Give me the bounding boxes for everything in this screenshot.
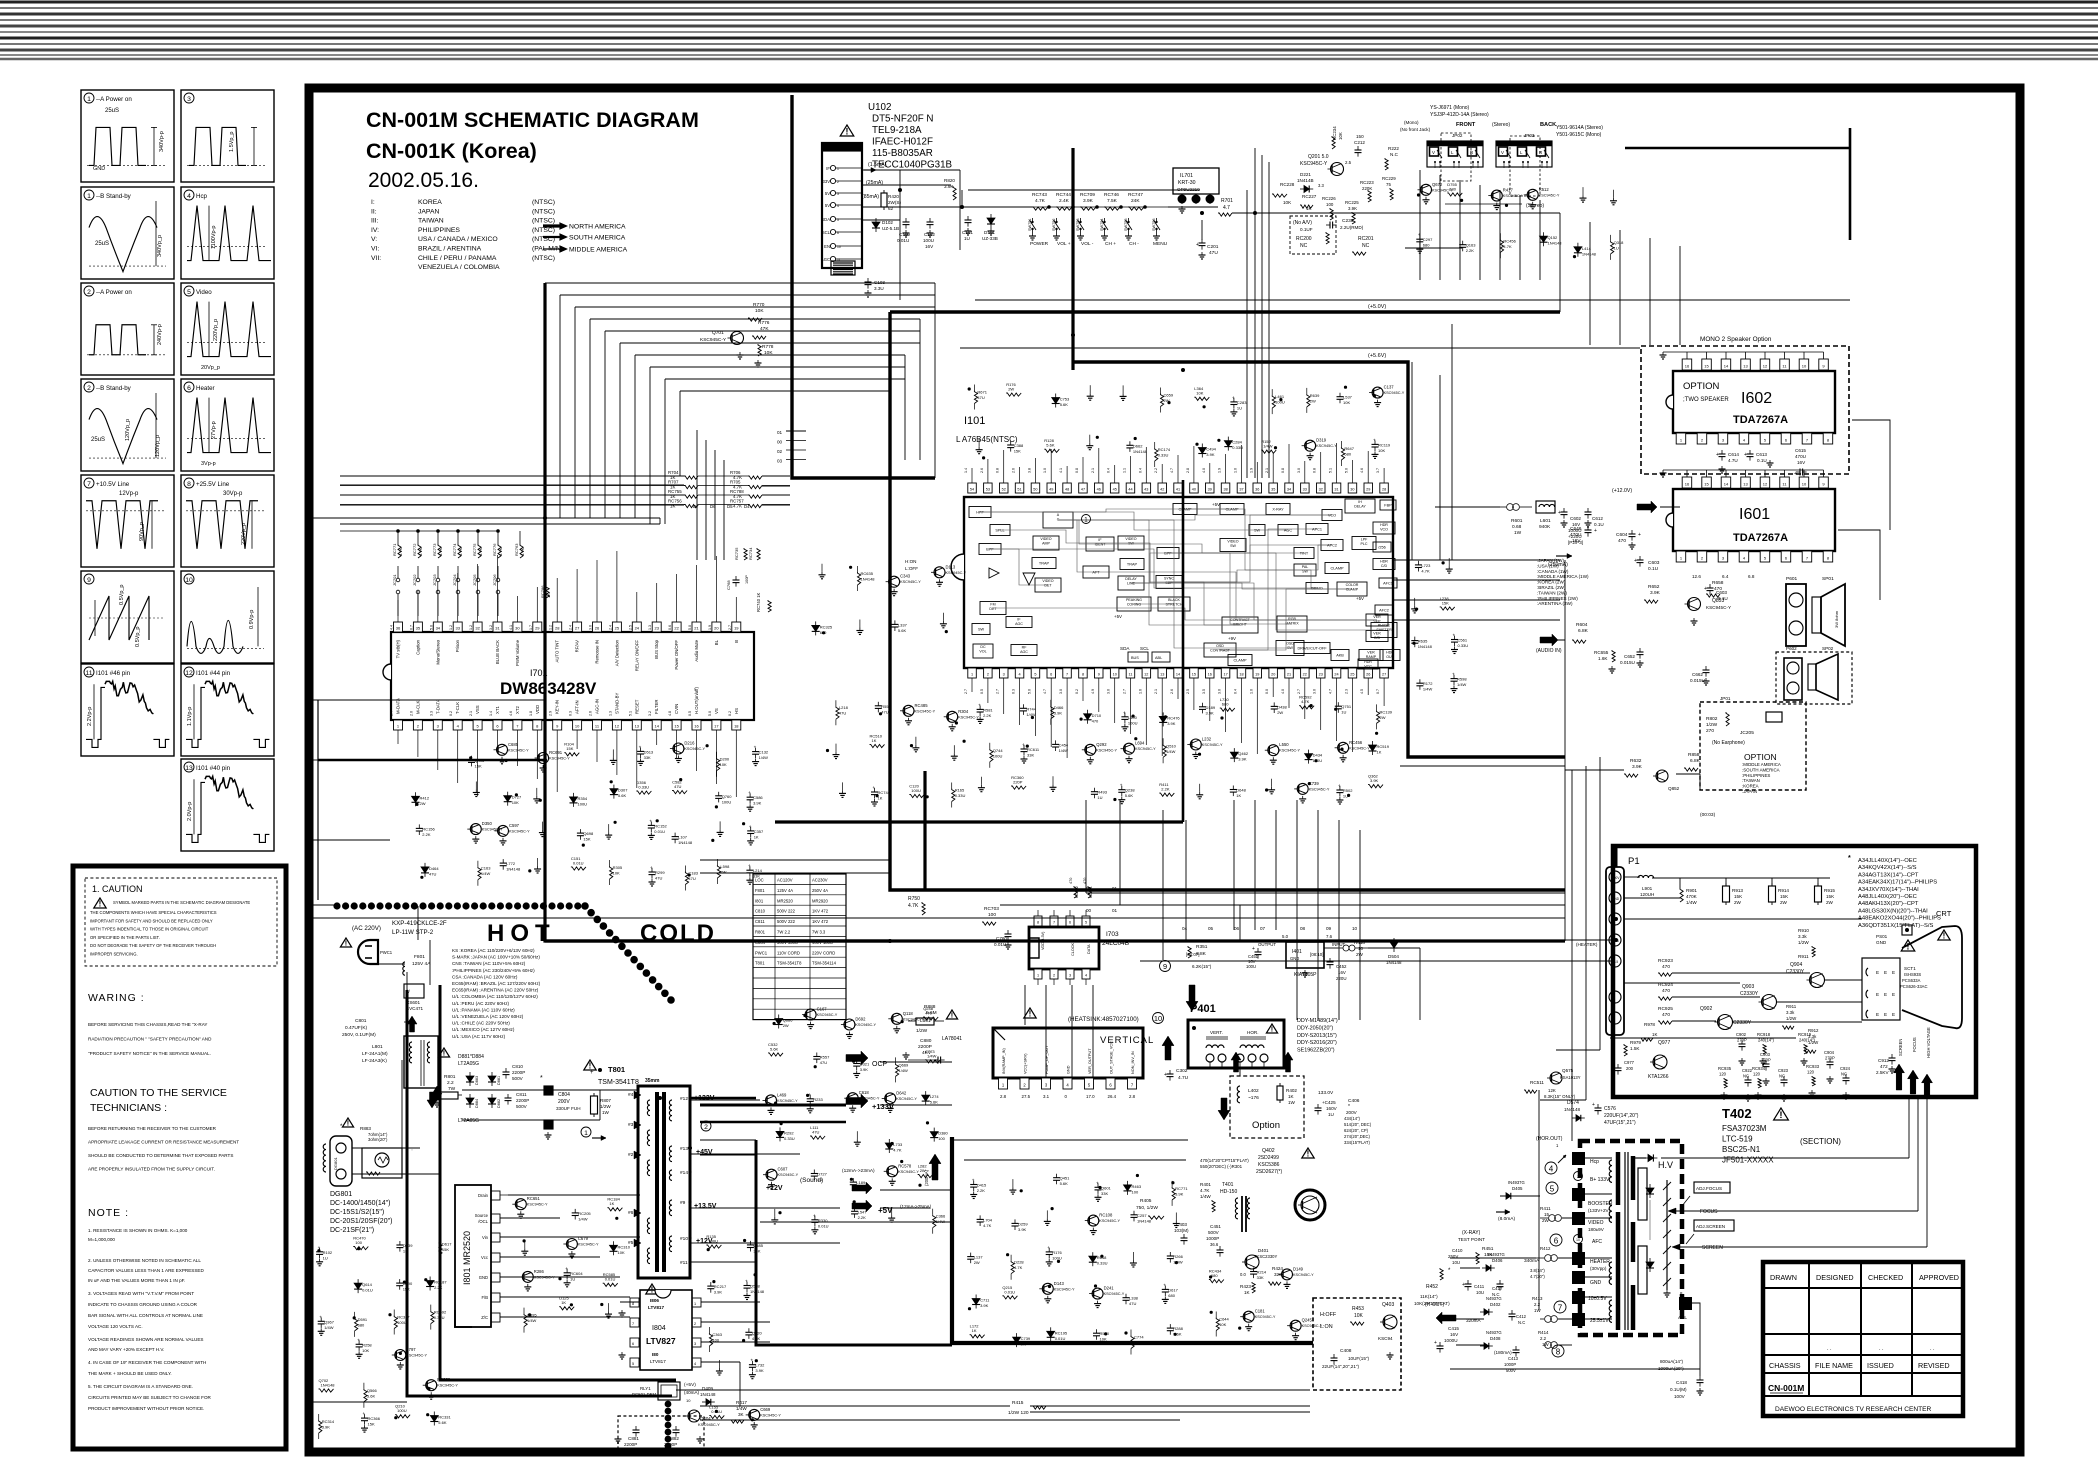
svg-text:0.47UF(K): 0.47UF(K) (345, 1025, 368, 1031)
svg-text:+: + (639, 744, 642, 749)
svg-text:2: 2 (1053, 974, 1055, 978)
svg-text:AC120V: AC120V (777, 878, 793, 883)
svg-text:KSC945C-Y: KSC945C-Y (509, 829, 530, 833)
svg-text:3.9K: 3.9K (1167, 721, 1176, 726)
svg-text:AFC1: AFC1 (1383, 582, 1393, 586)
svg-text:2W: 2W (1310, 398, 1316, 403)
svg-text:(AUDIO IN): (AUDIO IN) (1536, 648, 1562, 654)
svg-text:E: E (1876, 970, 1879, 975)
svg-text:BRAZIL / ARENTINA: BRAZIL / ARENTINA (418, 246, 482, 253)
capacitor R214 (1250, 1271, 1257, 1273)
svg-text:200V: 200V (1612, 876, 1620, 880)
svg-text:OPTION: OPTION (1744, 752, 1777, 762)
resistor D466 (1051, 706, 1054, 719)
svg-text:I101 #44 pin: I101 #44 pin (196, 670, 231, 677)
svg-text:SW753: SW753 (1076, 219, 1080, 231)
svg-text:2W: 2W (1021, 1342, 1027, 1347)
capacitor C297 (1416, 238, 1423, 240)
svg-text:5: 5 (1034, 673, 1036, 677)
svg-text:I601: I601 (1739, 506, 1770, 523)
svg-text:R424: R424 (1272, 1266, 1283, 1271)
svg-text:4.0: 4.0 (1281, 689, 1285, 694)
svg-text:C652: C652 (1624, 654, 1635, 659)
svg-text:2: 2 (704, 1124, 708, 1131)
svg-text:0.0: 0.0 (1265, 689, 1269, 694)
svg-text:C902: C902 (1736, 1032, 1747, 1037)
svg-text:KSA1013Y: KSA1013Y (1560, 1075, 1581, 1080)
svg-text:2.4: 2.4 (569, 625, 573, 630)
svg-text:680: 680 (1344, 452, 1351, 457)
svg-text:4.6: 4.6 (1360, 468, 1364, 473)
svg-text:KSC945C-Y: KSC945C-Y (1384, 391, 1405, 395)
svg-text:C132: C132 (759, 750, 769, 755)
transistor RC691 (538, 753, 549, 764)
svg-text:1.6: 1.6 (1138, 689, 1142, 694)
resistor C183 (685, 872, 688, 885)
svg-text:AFC2: AFC2 (1379, 609, 1389, 613)
svg-text:C923: C923 (1778, 1068, 1789, 1073)
svg-text:680: 680 (1222, 702, 1229, 707)
svg-text:5: 5 (1550, 1184, 1555, 1193)
svg-text:!: ! (443, 1049, 445, 1058)
svg-text:APC2: APC2 (1327, 544, 1337, 548)
svg-text:C774: C774 (1134, 1335, 1144, 1340)
capacitor R557 (813, 1056, 820, 1058)
svg-text:C103: C103 (874, 280, 885, 285)
waveform box 3 (181, 90, 274, 182)
svg-text:2.5: 2.5 (1186, 689, 1190, 694)
svg-text:R601: R601 (1511, 518, 1523, 524)
svg-text:D884: D884 (475, 1099, 479, 1108)
svg-text:/256: /256 (1378, 546, 1385, 550)
svg-text:L772: L772 (506, 861, 516, 866)
svg-text:PWC1: PWC1 (755, 950, 768, 955)
ground D381 (980, 777, 982, 785)
svg-text:KSC945C-Y: KSC945C-Y (900, 580, 921, 584)
svg-text:R415: R415 (1012, 1400, 1024, 1406)
svg-text:D405: D405 (1512, 1186, 1523, 1191)
svg-text:1/4W: 1/4W (527, 1318, 537, 1323)
svg-text:ABL: ABL (1155, 656, 1162, 660)
svg-text:TSM-3541T8: TSM-3541T8 (598, 1079, 639, 1086)
HV diode and label (1634, 1157, 1646, 1159)
svg-text:L:OFF: L:OFF (905, 566, 918, 571)
capacitor R744 (1020, 707, 1027, 709)
svg-text:C602: C602 (1570, 516, 1581, 521)
svg-text:#2: #2 (628, 1152, 634, 1158)
svg-text:D259: D259 (1018, 1221, 1028, 1226)
svg-text:624(20", CP): 624(20", CP) (1344, 1128, 1369, 1133)
svg-text:+: + (748, 790, 751, 795)
svg-text:3.9K: 3.9K (755, 1368, 764, 1373)
svg-text:680: 680 (358, 1322, 365, 1327)
svg-text:RC456: RC456 (1503, 238, 1516, 243)
svg-text:U/L :PANAMA (AC 110V 60Hz): U/L :PANAMA (AC 110V 60Hz) (452, 1007, 515, 1012)
svg-text:N4937G: N4937G (1486, 1296, 1502, 1301)
svg-text:06: 06 (1234, 926, 1240, 931)
svg-text:E: E (1876, 1012, 1879, 1017)
front jack JP02 (1427, 141, 1483, 167)
ground C612 (608, 824, 610, 832)
svg-text:C412: C412 (1516, 1314, 1527, 1319)
svg-text:220P: 220P (1013, 780, 1023, 785)
svg-text:D662: D662 (1133, 443, 1143, 448)
svg-text:5.0: 5.0 (429, 625, 433, 630)
resistor RC635 (858, 572, 861, 585)
svg-text:SW752: SW752 (1052, 219, 1056, 231)
resistor Q566 (364, 1389, 367, 1402)
transistor R304 (947, 711, 958, 722)
svg-text:0.4: 0.4 (1234, 689, 1238, 694)
svg-text:DG801: DG801 (330, 1191, 352, 1198)
svg-text:32: 32 (1319, 488, 1323, 492)
svg-text:Audio Mute: Audio Mute (694, 639, 699, 661)
svg-text:VIDEO: VIDEO (1227, 540, 1238, 544)
svg-text:Hcp: Hcp (1590, 1159, 1599, 1165)
svg-text:10K: 10K (755, 308, 764, 314)
svg-text:BPF: BPF (986, 548, 994, 552)
svg-text:Video: Video (196, 289, 212, 296)
svg-text:1/4W: 1/4W (578, 1216, 588, 1221)
svg-text:(1.5mA): (1.5mA) (868, 162, 887, 168)
svg-text:1000uA(20"): 1000uA(20") (1658, 1366, 1684, 1371)
I101 internal connector wires (1305, 570, 1317, 588)
svg-text:4.7K: 4.7K (418, 547, 423, 556)
svg-text:BEFORE SERVICING THIS CHASSIS,: BEFORE SERVICING THIS CHASSIS,READ THE "… (88, 1022, 207, 1027)
svg-text:C614: C614 (1728, 452, 1739, 457)
capacitor C103 (865, 281, 872, 283)
svg-text:FOCUS: FOCUS (1912, 1037, 1917, 1052)
svg-text:+: + (565, 1266, 568, 1271)
svg-text:100U: 100U (397, 1320, 407, 1325)
svg-text:B: B (1612, 996, 1614, 1000)
svg-text:E: E (1892, 970, 1895, 975)
svg-text:27Vp-p: 27Vp-p (211, 421, 217, 439)
svg-text:12: 12 (1144, 673, 1148, 677)
svg-text:34: 34 (1287, 488, 1291, 492)
svg-text:RC752: RC752 (1075, 886, 1079, 898)
svg-text:AFC: AFC (1592, 1239, 1602, 1245)
svg-text:UZ-33B: UZ-33B (982, 236, 998, 241)
svg-text:4.7: 4.7 (1329, 689, 1333, 694)
svg-text:1K: 1K (1377, 750, 1382, 755)
svg-text:KSC945C-Y: KSC945C-Y (527, 1203, 548, 1207)
svg-text:3.0: 3.0 (1218, 689, 1222, 694)
svg-text:BUS: BUS (1131, 656, 1139, 660)
tuner pin 2 33V (830, 178, 835, 183)
svg-text:33K: 33K (1027, 753, 1034, 758)
svg-text:I101: I101 (964, 415, 985, 427)
svg-text:RC228: RC228 (1280, 182, 1295, 187)
resistor C120 (909, 794, 924, 797)
svg-text:R776: R776 (758, 320, 770, 326)
title block table (1763, 1262, 1963, 1416)
svg-text:1N4148: 1N4148 (506, 867, 521, 872)
svg-text:CN-001K (Korea): CN-001K (Korea) (366, 139, 537, 163)
svg-text:2200P: 2200P (624, 1442, 637, 1447)
svg-text:A48AKH13X(20")--CPT: A48AKH13X(20")--CPT (1858, 901, 1919, 907)
svg-text:(Mono): (Mono) (1404, 120, 1419, 125)
svg-text:0.01U: 0.01U (994, 942, 1006, 947)
svg-text:RC744: RC744 (878, 790, 891, 795)
svg-text:3.9K: 3.9K (1054, 710, 1063, 715)
svg-text:15K: 15K (368, 1422, 375, 1427)
svg-text:DET: DET (989, 607, 997, 611)
svg-text:Vcc: Vcc (481, 1255, 488, 1260)
capacitor L338 (1123, 1297, 1130, 1299)
resistor C659 (1161, 394, 1164, 407)
svg-text:KSC945C-Y: KSC945C-Y (1706, 605, 1731, 610)
svg-text:Q744: Q744 (993, 748, 1004, 753)
svg-text:13: 13 (185, 765, 193, 772)
svg-text:4.5: 4.5 (1360, 689, 1364, 694)
svg-text::KOREA: :KOREA (1742, 784, 1759, 789)
svg-text:L232: L232 (1202, 737, 1212, 742)
resistor RC585 (603, 1283, 618, 1286)
svg-text:SHOULD BE CONDUCTED TO DETERMI: SHOULD BE CONDUCTED TO DETERMINE THAT EX… (88, 1153, 233, 1158)
svg-text:LT2A05G: LT2A05G (458, 1118, 479, 1124)
svg-text:OUT_STAGE_VCC: OUT_STAGE_VCC (1110, 1041, 1114, 1074)
svg-text:+: + (1744, 452, 1747, 458)
svg-text:1: 1 (1037, 974, 1039, 978)
svg-text:240Vp-p: 240Vp-p (157, 324, 163, 345)
svg-text:C403: C403 (1176, 1222, 1187, 1227)
svg-text:HS: HS (734, 708, 739, 714)
svg-text:0.7: 0.7 (1376, 689, 1380, 694)
jumper row JC701-JC706 (397, 566, 399, 578)
svg-text:1U: 1U (1614, 245, 1619, 250)
capacitor Q451 (1053, 1177, 1060, 1179)
svg-text:5.0: 5.0 (1344, 468, 1348, 473)
svg-text:4.7(20"): 4.7(20") (1530, 1274, 1545, 1279)
ground Q625 (1132, 1252, 1134, 1260)
svg-text:RC511: RC511 (1530, 1080, 1544, 1085)
svg-text:C882: C882 (668, 1436, 679, 1441)
svg-text:33V: 33V (823, 179, 831, 184)
svg-text:R802: R802 (1706, 716, 1718, 722)
svg-text:PS01: PS01 (1876, 934, 1888, 939)
svg-text:+: + (1164, 1072, 1167, 1078)
ground RC598 (774, 1209, 776, 1217)
svg-text:NOTE :: NOTE : (88, 1207, 129, 1219)
svg-text:1U: 1U (964, 236, 970, 241)
audio supply arrow (1637, 501, 1657, 513)
H-OFF dashed logic box (1313, 1298, 1401, 1390)
svg-text:BAR SIGNAL WITH ALL CONTROLS A: BAR SIGNAL WITH ALL CONTROLS AT NORMAL L… (88, 1313, 203, 1318)
svg-text:15K: 15K (1780, 894, 1789, 899)
capacitor C585 (747, 1244, 754, 1246)
svg-text:+: + (319, 1314, 322, 1319)
transistor Q292 (1085, 744, 1096, 755)
capacitor L107 (672, 836, 679, 838)
svg-text:RC366: RC366 (368, 1416, 381, 1421)
svg-text:10K: 10K (1343, 400, 1350, 405)
svg-text:2.5: 2.5 (1345, 160, 1352, 165)
svg-text:RC635: RC635 (861, 571, 874, 576)
svg-text:3.7: 3.7 (1376, 468, 1380, 473)
waveform box 12 I101 #44 pin (181, 664, 274, 756)
svg-text:+9V: +9V (1228, 636, 1236, 641)
capacitor R330 (811, 1219, 818, 1221)
svg-text:220K: 220K (1362, 186, 1372, 191)
resistor D356 (636, 791, 651, 794)
svg-text:(00:03): (00:03) (1700, 812, 1716, 818)
svg-text:C662: C662 (1692, 672, 1703, 677)
svg-text:1/2W: 1/2W (1706, 722, 1718, 728)
svg-text:MIDDLE AMERICA: MIDDLE AMERICA (569, 247, 628, 254)
svg-text:5.6K: 5.6K (618, 793, 627, 798)
svg-text:HDR: HDR (1380, 523, 1388, 527)
ground RC157 (608, 1303, 610, 1311)
svg-text:(12mA->23mA): (12mA->23mA) (842, 1168, 875, 1174)
keypad switches SW751-SW756 (1031, 221, 1033, 223)
resistor RC387 (394, 1316, 397, 1329)
capacitor L732 (749, 1364, 756, 1366)
svg-text:100: 100 (355, 1240, 362, 1245)
svg-text:1000P: 1000P (1206, 1236, 1219, 1241)
degauss coil DG801 (330, 1136, 352, 1186)
I101 top pins 54-28 (968, 483, 977, 493)
svg-text:JC705: JC705 (472, 574, 477, 586)
svg-text:KSC945C-Y: KSC945C-Y (578, 1243, 599, 1247)
svg-text:CH -: CH - (1129, 241, 1139, 247)
resistor Q210 (395, 1415, 410, 1418)
svg-text:L218: L218 (839, 705, 849, 710)
svg-text:MONO 2 Speaker Option: MONO 2 Speaker Option (1700, 336, 1772, 343)
svg-text:RC485: RC485 (915, 703, 929, 708)
svg-text:SP01: SP01 (1822, 576, 1834, 582)
svg-text:1N4148: 1N4148 (1137, 1218, 1152, 1223)
svg-text:22: 22 (674, 626, 679, 631)
svg-text:C768: C768 (726, 580, 731, 590)
svg-text:EC65(IRAM) :BRAZIL (AC 127/220: EC65(IRAM) :BRAZIL (AC 127/220V 60Hz) (452, 981, 541, 986)
I701 bottom pins (394, 720, 403, 730)
svg-text:RC519: RC519 (1377, 744, 1390, 749)
svg-text:47U: 47U (674, 784, 681, 789)
svg-text:470: 470 (1092, 718, 1099, 723)
svg-text:RC201: RC201 (1358, 236, 1374, 242)
svg-text::MIDDLE AMERICA (1W): :MIDDLE AMERICA (1W) (1537, 574, 1589, 579)
transistor C669 (749, 1409, 760, 1420)
svg-text:RC692: RC692 (434, 1310, 447, 1315)
svg-text:4.7K: 4.7K (1035, 198, 1046, 204)
svg-text:R292: R292 (784, 1130, 794, 1135)
svg-text:PRODUCT IMPROVEMENT WITHOUT PR: PRODUCT IMPROVEMENT WITHOUT PRIOR NOTICE… (88, 1406, 204, 1411)
svg-text:R402: R402 (1286, 1088, 1297, 1093)
svg-text:15K: 15K (1734, 894, 1743, 899)
keypad resistor row RC743-RC747 (1032, 206, 1168, 208)
svg-text:KSC945C-Y: KSC945C-Y (1255, 1315, 1276, 1319)
svg-text:1W: 1W (1534, 1308, 1541, 1313)
svg-text:53: 53 (986, 488, 990, 492)
svg-text:SW755: SW755 (1124, 219, 1128, 231)
svg-text:0.8: 0.8 (1281, 468, 1285, 473)
svg-text:A48LGS30X(N)(20")--THAI: A48LGS30X(N)(20")--THAI (1858, 908, 1928, 914)
svg-text:100U: 100U (578, 801, 588, 806)
svg-text:470: 470 (925, 1011, 932, 1016)
svg-text:DET: DET (1044, 584, 1052, 588)
svg-text:3.1: 3.1 (1043, 1094, 1050, 1099)
svg-text:16: 16 (1685, 364, 1690, 369)
capacitor Q538 (744, 1285, 751, 1287)
svg-text:4.4: 4.4 (390, 625, 394, 630)
svg-text:3.0: 3.0 (1297, 468, 1301, 473)
transistor RC485 (903, 705, 914, 716)
svg-text:#11: #11 (680, 1260, 688, 1266)
svg-text:D438: D438 (1277, 704, 1287, 709)
svg-text:C739: C739 (1021, 1336, 1031, 1341)
svg-text:L598: L598 (720, 864, 730, 869)
svg-text:I703: I703 (1106, 931, 1119, 938)
svg-text:D710: D710 (1092, 713, 1102, 718)
svg-text:10K: 10K (362, 1348, 369, 1353)
X capacitors dashed box (618, 1416, 704, 1452)
svg-text:+: + (873, 785, 876, 790)
ground L218 (1046, 1210, 1048, 1218)
ground RC418 (835, 744, 837, 752)
svg-text:115-B8035AR: 115-B8035AR (872, 148, 933, 159)
svg-text:Mono/Stereo: Mono/Stereo (435, 639, 440, 664)
capacitor C101 (965, 219, 972, 221)
svg-text:D5: D5 (727, 504, 733, 509)
svg-text:3: 3 (1069, 974, 1071, 978)
svg-text:RC331: RC331 (438, 1415, 451, 1420)
svg-text:33K: 33K (753, 874, 760, 879)
svg-text:LP-11W STP-2: LP-11W STP-2 (392, 929, 434, 936)
svg-text:10: 10 (1352, 926, 1358, 931)
resistor RC139 (1377, 710, 1380, 723)
svg-text:2. UNLESS OTHERWISE NOTED IN S: 2. UNLESS OTHERWISE NOTED IN SCHEMATIC A… (88, 1258, 201, 1263)
svg-text:TRAP: TRAP (1127, 563, 1138, 567)
svg-text:OPTION: OPTION (1683, 381, 1720, 392)
svg-text:14: 14 (1724, 364, 1729, 369)
svg-text:100: 100 (938, 1136, 945, 1141)
svg-text:3.9K: 3.9K (860, 1067, 869, 1072)
svg-text:C343: C343 (900, 574, 911, 579)
svg-text:R233: R233 (813, 1097, 823, 1102)
svg-text:5. THE CIRCUIT DIAGRAM IS A ST: 5. THE CIRCUIT DIAGRAM IS A STANDARD ONE… (88, 1384, 193, 1389)
svg-text:KSC945C-Y: KSC945C-Y (406, 1354, 427, 1358)
svg-text:JC706: JC706 (492, 574, 497, 586)
svg-text:0.33U: 0.33U (784, 1136, 795, 1141)
svg-text:27: 27 (575, 626, 580, 631)
svg-text:4.7K: 4.7K (1200, 1188, 1210, 1193)
svg-text:C201: C201 (1207, 244, 1219, 250)
svg-text:1/2W 120: 1/2W 120 (1008, 1410, 1029, 1416)
svg-text:28: 28 (555, 626, 560, 631)
svg-text:27: 27 (1382, 673, 1386, 677)
svg-text:0.33U: 0.33U (1232, 445, 1243, 450)
svg-text:13: 13 (1160, 673, 1164, 677)
svg-text:1/2W: 1/2W (916, 1028, 928, 1034)
svg-text:SCL: SCL (822, 230, 831, 235)
svg-text:AFT-IN: AFT-IN (575, 700, 580, 714)
svg-text:DC-15S1/S2(15"): DC-15S1/S2(15") (330, 1209, 384, 1216)
I101 bottom pins 1-27 (968, 668, 977, 678)
svg-text:1W: 1W (1514, 530, 1522, 536)
svg-text:HIGH VOLTAGE: HIGH VOLTAGE (1926, 1027, 1931, 1058)
svg-text:R493: R493 (1097, 790, 1107, 795)
resistor C532 (768, 1053, 783, 1056)
capacitor C454 (1052, 743, 1059, 745)
svg-text:1K: 1K (561, 1300, 566, 1305)
resistor C582 (672, 791, 687, 794)
svg-text:RC476: RC476 (1167, 715, 1180, 720)
svg-text:P601: P601 (1786, 576, 1798, 582)
svg-text:LPF: LPF (1361, 538, 1368, 542)
svg-text:470: 470 (1714, 586, 1722, 592)
svg-text:1. RESISTANCE IS SHOWN IN OHMS: 1. RESISTANCE IS SHOWN IN OHMS. K=1,000 (88, 1228, 188, 1233)
